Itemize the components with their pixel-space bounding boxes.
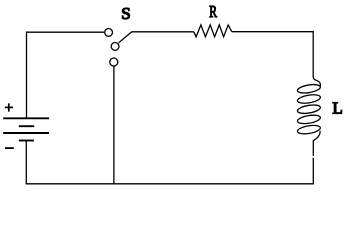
wire resistor to top-right corner bbox=[232, 31, 313, 33]
wire switch pole down to bottom rail bbox=[113, 66, 115, 183]
wire left vertical (top-left corner down to battery) bbox=[26, 31, 28, 118]
switch S pole contact circle bbox=[111, 43, 119, 51]
wire bottom rail bbox=[26, 183, 314, 185]
svg-text:L: L bbox=[332, 99, 342, 118]
switch S left contact circle bbox=[105, 29, 113, 37]
svg-text:R: R bbox=[209, 3, 217, 22]
battery negative label - bbox=[5, 147, 14, 149]
wire top-left horizontal (battery + to switch) bbox=[27, 31, 105, 33]
wire inductor to bottom-right corner (with small break) bbox=[312, 140, 314, 156]
wire switch to resistor bbox=[132, 31, 194, 33]
battery positive label + bbox=[5, 103, 13, 111]
wire right vertical down to inductor bbox=[312, 31, 314, 77]
battery B1 bbox=[3, 118, 49, 140]
inductor L coil bbox=[297, 77, 321, 141]
svg-text:S: S bbox=[121, 4, 130, 23]
resistor R zigzag bbox=[194, 25, 232, 37]
switch S bottom contact circle bbox=[110, 58, 118, 66]
switch S blade (open arm to resistor wire) bbox=[119, 32, 132, 43]
wire battery to bottom rail bbox=[25, 141, 27, 185]
